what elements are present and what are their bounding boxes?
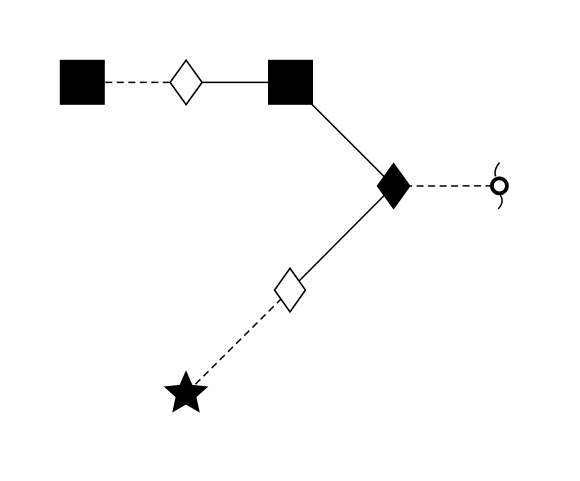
wire: solid diagonal edge square C to filled diamond D [290,82,394,186]
node D: filled diamond [378,164,410,208]
wire: dashed edge square A to diamond B [82,81,186,83]
node A: filled square [60,60,105,105]
node E: wavy line lower arc [498,195,502,209]
wire: dashed edge filled diamond D to circle E [394,185,500,187]
node C: filled square [268,60,313,105]
node E: wavy line upper arc [495,163,499,177]
wire: dashed diagonal edge open diamond F to star G [186,290,290,394]
node F: open diamond [275,268,306,312]
node E: bold open circle (reducing end) [492,178,507,193]
node G: filled star [164,370,209,412]
wire: solid diagonal edge filled diamond D to open diamond F [290,186,394,290]
node B: open diamond [170,60,202,104]
wire: solid edge diamond B to square C [186,81,290,83]
